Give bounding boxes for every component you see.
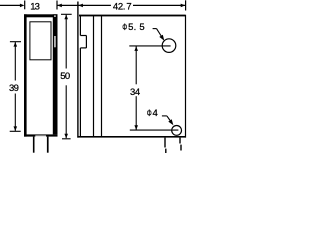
node arrowhead 42.7 right pointing right — [181, 4, 186, 8]
node arrowhead 34 top pointing up — [134, 46, 138, 51]
right view pin A upper — [164, 138, 165, 148]
wire 39 dim line lower — [14, 94, 16, 131]
node arrowhead 39 top pointing up — [14, 42, 18, 47]
wire 39 dim bottom extension bar — [10, 130, 21, 132]
node arrowhead phi5.5 leader — [159, 35, 164, 41]
wire 50 dim top extension bar — [61, 13, 72, 15]
svg-text:34: 34 — [130, 87, 140, 98]
svg-text:Φ: Φ — [147, 108, 152, 119]
right view pin B lower — [180, 145, 181, 151]
left view inner window — [30, 22, 51, 60]
node arrowhead 50 bottom pointing down — [64, 134, 68, 139]
left view pin 1 — [33, 137, 35, 153]
right view line V3 — [93, 16, 95, 137]
wire 39 dim top extension bar — [10, 41, 21, 43]
left view outer: top border — [24, 14, 58, 17]
node arrowhead 13 left pointing right — [20, 4, 25, 8]
right view top edge — [79, 15, 186, 17]
right view pin B upper — [179, 138, 180, 144]
wire 39 dim line upper — [14, 42, 16, 80]
svg-text:4: 4 — [153, 108, 158, 119]
hole circle 5.5 — [162, 39, 176, 53]
right view right edge — [185, 15, 187, 138]
left view pin 2 — [47, 137, 49, 153]
node arrowhead 13 right pointing left — [57, 4, 62, 8]
left view outer: right thick bar — [53, 14, 58, 134]
wire 50 dim bottom extension bar — [62, 138, 71, 140]
wire 50 dim line upper — [65, 15, 67, 69]
left view white notch in bottom border — [35, 136, 46, 137]
node arrowhead 50 top pointing up — [64, 15, 68, 20]
right view line V2 lower — [79, 48, 81, 137]
svg-text:39: 39 — [9, 83, 19, 94]
wire 34 dim line upper — [135, 46, 137, 84]
wire 50 dim line lower — [65, 85, 67, 138]
leader line phi5.5 diagonal — [157, 29, 163, 38]
node arrowhead 39 bottom pointing down — [14, 126, 18, 130]
svg-text:50: 50 — [60, 71, 70, 82]
left view white slit in right bar — [54, 36, 55, 47]
right view notch bottom — [80, 47, 86, 49]
node arrowhead 42.7 left pointing left — [78, 4, 83, 8]
svg-text:13: 13 — [30, 1, 40, 12]
wire center line bottom hole — [130, 129, 179, 131]
svg-text:Φ: Φ — [122, 22, 127, 33]
right view notch right side — [85, 36, 87, 48]
wire center line top hole — [129, 45, 170, 47]
right view line V2 upper — [79, 16, 81, 36]
left view outer: bottom border — [24, 134, 58, 136]
right view pin A lower — [165, 149, 166, 153]
node arrowhead phi4 leader — [168, 119, 173, 125]
node arrowhead 34 bottom pointing down — [134, 125, 138, 130]
left view white dot top of slit — [54, 15, 55, 17]
node tick 13 left — [24, 1, 26, 10]
right view notch top — [80, 35, 86, 37]
left view outer: left border — [24, 14, 27, 136]
right view front edge V1 (also 42.7 left extension) — [77, 2, 79, 138]
wire 34 dim line lower — [135, 96, 137, 130]
wire dim line 13 left tail — [0, 4, 20, 6]
leader line phi4 diagonal — [167, 116, 172, 123]
leader line phi4 stub — [162, 115, 167, 117]
wire dim line between 13 right tick and 42.7 text — [57, 4, 111, 6]
right view line V4 — [101, 16, 103, 137]
right view bottom edge — [77, 136, 185, 138]
hole circle 4 — [172, 125, 182, 135]
wire dim line 42.7 right of text — [133, 4, 185, 6]
node tick 42.7 right — [185, 0, 187, 10]
svg-text:42.7: 42.7 — [113, 1, 132, 12]
node tick 13 right — [56, 1, 58, 10]
leader line phi5.5 stub — [153, 28, 157, 30]
